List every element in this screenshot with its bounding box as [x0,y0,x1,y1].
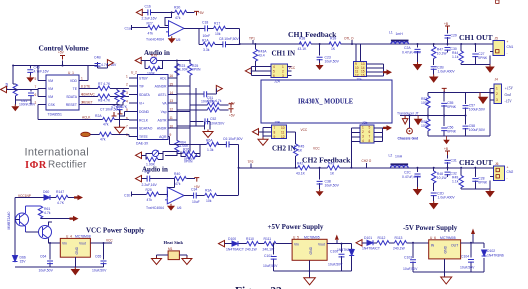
svg-text:+5V: +5V [58,51,65,55]
U_1 left pins [38,66,58,120]
ground [485,189,495,197]
ground tick [444,136,449,144]
wire output [274,240,352,278]
svg-text:1K: 1K [331,47,336,51]
svg-text:CH1 OUT: CH1 OUT [459,33,493,42]
svg-text:ANDR: ANDR [157,127,167,131]
port [219,240,225,246]
resistor R58 [427,116,429,137]
svg-text:4.7k: 4.7k [207,99,214,103]
svg-text:0PNK: 0PNK [447,130,457,134]
connector J2A [271,64,288,84]
svg-text:8: 8 [274,130,276,134]
IC U1 left pin wires [129,78,138,137]
svg-text:5: 5 [369,126,371,130]
svg-text:+5V Power Supply: +5V Power Supply [268,223,324,231]
svg-text:J2A: J2A [274,79,281,83]
port module right arrow [383,69,392,75]
ground [413,187,423,195]
resistor R44 [460,44,462,51]
svg-text:10nF: 10nF [203,34,211,38]
power -5 arrow [471,229,475,235]
resistor R70 [186,155,198,159]
resistor R21 [148,66,160,70]
svg-text:47k: 47k [175,16,181,20]
port P5 [107,60,113,66]
svg-text:TP1: TP1 [249,37,255,41]
resistor R2A [103,117,115,121]
connector J4 [494,78,514,104]
svg-text:1N4T0AICT: 1N4T0AICT [362,247,380,251]
svg-text:R6A: R6A [206,139,213,143]
svg-text:RESET: RESET [82,100,93,104]
wire [225,243,293,245]
svg-text:240,1W: 240,1W [393,247,405,251]
svg-text:2.2uF,16V: 2.2uF,16V [142,183,158,187]
svg-text:VM: VM [48,95,53,99]
power gnd triangle [415,116,422,125]
svg-text:3: 3 [362,135,364,139]
ground [413,62,423,70]
trimmer R20 [152,150,158,156]
svg-text:IΦR: IΦR [25,160,47,171]
svg-text:DAE-3X: DAE-3X [136,142,149,146]
svg-text:C2A: C2A [404,46,411,50]
svg-text:SDATA: SDATA [66,95,78,99]
svg-text:47k: 47k [147,198,153,202]
svg-text:VI+: VI+ [139,102,144,106]
resistor R112 [377,241,389,245]
bus wire right of U1 [165,61,196,156]
svg-text:4.7nF,16V: 4.7nF,16V [34,70,50,74]
svg-text:ADL: ADL [160,76,167,80]
svg-text:C29: C29 [451,34,457,38]
svg-text:TxxHC4064: TxxHC4064 [146,206,164,210]
svg-text:2: 2 [35,101,37,105]
diode D60 [44,195,50,200]
svg-text:11: 11 [170,116,174,120]
op-amp U5 [166,21,184,37]
svg-text:9: 9 [170,133,172,137]
capacitor C30 [447,44,449,53]
ground [168,36,176,43]
resistor R51 [207,103,219,107]
svg-text:VM: VM [48,79,53,83]
power -15 arrow [479,92,488,103]
svg-text:R26: R26 [183,148,189,152]
svg-text:+5V: +5V [229,102,236,106]
svg-text:Audio in: Audio in [144,49,170,57]
svg-text:Figure 22: Figure 22 [235,286,282,289]
port down [402,116,408,125]
port CH1IN [245,68,251,74]
svg-text:10k: 10k [215,32,221,36]
svg-text:6: 6 [35,93,37,97]
svg-text:R28: R28 [146,188,152,192]
resistor R6A [207,142,219,146]
svg-text:43.1K: 43.1K [298,47,308,51]
capacitor C34 [194,193,197,199]
port P3 [216,85,222,91]
resistor R3A [205,193,217,197]
svg-text:ASTR: ASTR [157,118,167,122]
svg-text:43.4: 43.4 [258,54,265,58]
svg-text:VCC: VCC [106,239,113,243]
svg-text:CSK: CSK [48,103,56,107]
svg-text:12: 12 [170,108,174,112]
svg-text:10uF,50V: 10uF,50V [92,269,107,273]
svg-text:240,1W: 240,1W [245,247,257,251]
svg-text:Gnd: Gnd [505,93,511,97]
capacitor C29 [447,30,449,44]
capacitor C55 [443,92,445,115]
svg-text:R42: R42 [297,162,303,166]
svg-text:R7 4.7K: R7 4.7K [98,82,111,86]
svg-text:J5: J5 [495,37,499,41]
svg-text:SDATA: SDATA [139,93,151,97]
ground [167,204,175,211]
wire [142,12,171,25]
svg-text:47k: 47k [148,32,154,36]
capacitor C100 [339,254,345,257]
svg-text:9: 9 [274,135,276,139]
zener D66 [13,256,18,262]
wire top rail [13,61,88,84]
svg-text:8: 8 [369,139,371,143]
wire rails [400,88,495,136]
heatsink HS1 [168,251,179,260]
trimmer R19 [150,57,156,63]
resistor R61 [38,206,42,218]
svg-text:C65: C65 [95,255,101,259]
ground [11,104,19,111]
resistor R7 [98,86,110,90]
svg-text:C101: C101 [264,254,272,258]
svg-text:Transducer JT: Transducer JT [397,111,419,115]
svg-text:C1a: C1a [125,27,131,31]
svg-text:47k: 47k [175,182,181,186]
svg-text:C2C: C2C [404,171,411,175]
svg-text:1: 1 [81,77,83,81]
svg-text:C16: C16 [145,5,151,9]
svg-text:3: 3 [282,74,284,78]
svg-text:C34: C34 [191,188,197,192]
ground [258,137,268,145]
resistor R147 [56,195,68,199]
resistor R25 [177,61,190,64]
svg-text:U_1: U_1 [68,71,74,75]
svg-text:10uF,50V: 10uF,50V [403,267,418,271]
svg-text:2: 2 [282,69,284,73]
regulator U_6 [429,240,461,259]
svg-text:TE: TE [73,87,78,91]
svg-text:SDATAO: SDATAO [139,127,153,131]
port P7 [136,175,142,181]
capacitor C32 [447,168,449,177]
svg-text:TP2: TP2 [248,160,254,164]
svg-text:SDATA/C: SDATA/C [82,92,96,96]
svg-text:Chassis Gnd: Chassis Gnd [398,137,419,141]
resistor R1A [203,42,215,46]
power +5V [229,109,234,113]
svg-text:3: 3 [496,98,498,102]
svg-text:L1: L1 [389,31,393,35]
svg-text:R43: R43 [328,162,334,166]
wire feedback to J2a [356,44,361,62]
svg-text:1.00K: 1.00K [179,68,189,72]
svg-text:2: 2 [362,130,364,134]
ground [115,125,125,133]
svg-text:+5V: +5V [198,11,205,15]
resistor R49 [460,168,462,176]
IC U1 right pin wires [168,78,190,145]
transistor Q2 [39,226,52,239]
svg-text:C18: C18 [202,21,208,25]
svg-text:16: 16 [170,74,174,78]
svg-text:L2: L2 [389,154,393,158]
svg-text:CH2 OUT: CH2 OUT [459,158,493,167]
svg-text:R110: R110 [246,237,254,241]
capacitor C2A [417,44,419,62]
connector J5 CH1 [490,0,513,56]
svg-text:2: 2 [496,92,498,96]
svg-text:VCC: VCC [301,128,308,132]
inductor L2 [391,163,409,167]
svg-text:11: 11 [281,130,285,134]
svg-text:0PNK: 0PNK [478,56,488,60]
svg-text:R39: R39 [330,37,336,41]
svg-text:MC78M08: MC78M08 [75,234,91,238]
svg-text:D60: D60 [43,190,49,194]
net XTAL oval [81,132,91,136]
svg-text:+: + [507,166,509,170]
capacitor C57 [465,92,467,115]
power +5 arrow [335,235,339,240]
svg-text:Vout: Vout [318,243,325,247]
resistor R2B [99,132,111,136]
resistor R28 [147,192,159,196]
svg-text:J2B: J2B [274,121,281,125]
capacitor C41 [28,93,34,96]
svg-text:1.1k: 1.1k [452,55,459,59]
inductor L1 [391,40,409,44]
ground [152,257,162,265]
svg-text:10k: 10k [206,199,212,203]
svg-text:12: 12 [281,135,285,139]
svg-text:D101: D101 [364,236,372,240]
capacitor C65 [101,261,107,264]
svg-text:1N4TK8N6: 1N4TK8N6 [337,248,354,252]
wire to J2B [259,128,272,138]
svg-text:R40: R40 [174,172,180,176]
capacitor C38 [319,168,321,189]
capacitor C104 [468,260,474,263]
regulator U_5 [292,239,327,260]
ground [182,257,192,265]
ground [429,75,439,83]
port P4 [1,86,7,92]
svg-text:7: 7 [126,125,128,129]
svg-text:+B: +B [444,147,448,151]
svg-text:RESET: RESET [66,103,77,107]
svg-text:TDA8551: TDA8551 [48,113,62,117]
port P1 [136,9,142,15]
svg-text:J6: J6 [495,162,499,166]
svg-text:R27: R27 [147,22,153,26]
resistor R26 [183,151,195,155]
svg-text:Rectifier: Rectifier [48,160,87,171]
diode D100 [232,241,238,246]
svg-text:C104: C104 [461,255,469,259]
power +5V [229,104,234,108]
svg-text:10uF,50V: 10uF,50V [39,269,54,273]
svg-text:R147: R147 [56,190,64,194]
svg-text:C64: C64 [40,255,46,259]
resistor R8 [98,94,110,98]
svg-text:100uF,50V: 100uF,50V [469,128,486,132]
capacitor C51 [204,91,207,97]
resistor R110 [247,241,259,245]
wire op-amp U6 output [167,179,238,196]
diode D101 [367,240,373,245]
svg-text:1.0uF,400V: 1.0uF,400V [438,196,456,200]
svg-text:R1A: R1A [202,39,209,43]
svg-text:AQR: AQR [159,135,167,139]
svg-text:GND: GND [75,246,79,254]
svg-text:2.2uF,16V: 2.2uF,16V [142,17,158,21]
svg-text:Vin: Vin [294,243,299,247]
ground open [441,277,452,284]
svg-text:6: 6 [273,74,275,78]
capacitor C103 [412,243,414,272]
svg-text:1: 1 [496,87,498,91]
svg-text:C8 10nF,50V: C8 10nF,50V [219,37,239,41]
diode D102a [349,250,354,256]
svg-text:R113: R113 [395,236,403,240]
resistor R45 [287,132,296,144]
port CH2IN [253,129,259,135]
resistor R10 [121,90,125,102]
capacitor C19 [142,172,175,179]
svg-text:GND: GND [309,246,313,254]
svg-text:GND: GND [444,245,448,253]
resistor R42 [298,166,310,170]
svg-text:2: 2 [126,83,128,87]
svg-text:R8 4.7K: R8 4.7K [98,98,111,102]
svg-text:1.3k: 1.3k [207,148,214,152]
svg-text:10: 10 [170,124,174,128]
svg-text:14: 14 [170,91,174,95]
power +B [445,26,450,30]
svg-text:OUT: OUT [451,244,458,248]
resistor R64 [175,140,179,152]
capacitor C8 [223,41,226,47]
svg-text:J4: J4 [495,78,499,82]
wire [240,43,493,45]
wire [141,61,176,69]
svg-text:VCC: VCC [313,147,320,151]
svg-text:CH1 IN: CH1 IN [272,50,296,58]
svg-text:47k: 47k [100,137,106,141]
svg-text:D100: D100 [228,237,236,241]
svg-text:100K: 100K [421,124,430,128]
ground [26,75,34,82]
svg-text:1.1k: 1.1k [452,180,459,184]
wire feedback sub-row [199,28,240,44]
svg-text:4.7k: 4.7k [44,211,51,215]
svg-text:R3A: R3A [205,189,212,193]
svg-text:0.47uF,400V: 0.47uF,400V [402,51,422,55]
resistor R43 [327,166,339,170]
resistor R23 [176,61,178,78]
resistor R57 [427,92,429,115]
svg-text:10: 10 [281,126,285,130]
svg-text:-: - [507,52,508,56]
wire bottom rail [461,56,490,65]
svg-text:1K: 1K [330,171,335,175]
resistor R47 [433,44,435,47]
svg-text:10uF,50V: 10uF,50V [328,263,343,267]
wire branch rows [177,94,229,129]
ground [316,189,324,196]
svg-text:VCC Power Supply: VCC Power Supply [86,227,145,235]
svg-text:+: + [507,40,509,44]
svg-text:Vin: Vin [62,242,67,246]
transistor Q1 [16,213,29,226]
capacitor C2C [417,168,419,187]
svg-text:TxxHC4064: TxxHC4064 [146,38,164,42]
svg-text:100K: 100K [421,101,430,105]
wire [41,217,72,220]
svg-text:STBY: STBY [139,76,149,80]
svg-text:C52: C52 [210,117,216,121]
svg-text:MC79M05: MC79M05 [440,236,456,240]
svg-text:7: 7 [35,85,37,89]
svg-text:U5: U5 [176,38,180,42]
svg-text:+15V: +15V [505,87,514,91]
svg-text:1mH: 1mH [395,155,403,159]
svg-text:3: 3 [126,91,128,95]
svg-text:10,1W: 10,1W [437,52,448,56]
svg-text:0P0N: 0P0N [192,68,201,72]
wire J2b left [351,128,360,168]
svg-text:Control Volume: Control Volume [39,44,90,53]
svg-text:7: 7 [274,126,276,130]
svg-text:0PNK: 0PNK [478,181,488,185]
svg-text:10uF,50V: 10uF,50V [325,184,340,188]
svg-text:5: 5 [35,77,37,81]
svg-text:1mH: 1mH [396,32,404,36]
svg-text:1: 1 [362,126,364,130]
power +B2 [445,151,450,155]
connector J2a [354,62,367,82]
svg-text:CH2 IN: CH2 IN [272,145,296,153]
capacitor C16 [148,9,151,15]
wire [239,167,494,169]
svg-text:R112: R112 [378,236,386,240]
wire input [15,198,76,256]
resistor R43A [254,44,256,49]
svg-text:10uF,50V: 10uF,50V [325,60,340,64]
svg-text:4.7k: 4.7k [215,99,222,103]
svg-text:ASNDR: ASNDR [155,85,167,89]
svg-text:OTL O: OTL O [344,37,354,41]
svg-text:U_4: U_4 [66,234,72,238]
capacitor C6 [226,141,229,147]
svg-text:C103: C103 [404,256,412,260]
capacitor C56 [443,116,445,137]
svg-text:CN1: CN1 [507,45,514,49]
